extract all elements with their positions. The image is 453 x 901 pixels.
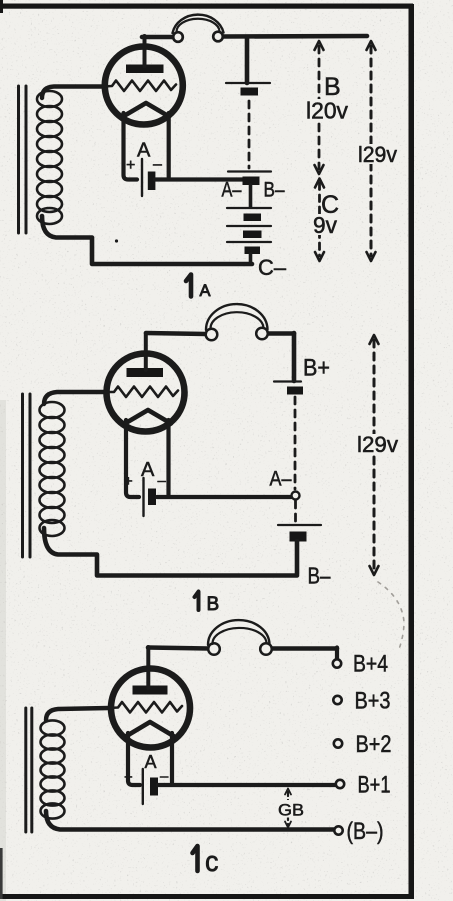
transformer core T3 line 2 (30, 708, 33, 832)
svg-text:l20v: l20v (306, 98, 348, 124)
wire battery A2 to A- terminal (157, 495, 291, 499)
transformer core T2 line 1 (21, 394, 24, 557)
svg-text:B+2: B+2 (356, 731, 392, 758)
phones bridge inner arc (1C) (212, 628, 266, 644)
B+4 drop wire (335, 648, 339, 659)
phones bridge inner arc (176, 19, 219, 32)
jack terminal circle right (1C) (260, 643, 272, 655)
filament left lead wire (124, 113, 138, 180)
frame left border bottom stub (0, 848, 3, 899)
transformer core T1 line 2 (25, 86, 28, 233)
transformer core T2 line 2 (29, 394, 32, 557)
svg-text:B: B (207, 594, 220, 615)
B+ battery lead wire (292, 333, 297, 381)
frame top border (0, 4, 413, 9)
arrow 129v bottom head (1A) (367, 252, 376, 261)
jack terminal circle right (213, 32, 223, 42)
svg-text:B+1: B+1 (358, 772, 391, 799)
filament left lead wire (1C) (128, 733, 140, 785)
battery C cell3 negative plate (245, 247, 261, 255)
phones bridge inner arc (1B) (210, 312, 263, 329)
svg-text:l29v: l29v (357, 432, 398, 457)
battery C cell3 positive plate (227, 241, 271, 243)
label 9v (310, 214, 340, 235)
frame right border (409, 4, 415, 899)
filament right lead wire (1B) (166, 420, 170, 495)
triode V1 filament (123, 103, 169, 117)
arrow B bottom head (315, 165, 324, 174)
B+3 terminal circle (333, 696, 341, 704)
svg-text:B–: B– (264, 179, 285, 202)
triode V3 filament (127, 722, 174, 736)
stray ink dot (115, 239, 118, 242)
battery B- negative plate (290, 532, 307, 542)
svg-text:l29v: l29v (358, 142, 397, 167)
battery A2 positive plate (142, 478, 144, 516)
label 120v (303, 99, 350, 121)
svg-text:A: A (137, 140, 151, 162)
arrow B top head (315, 41, 324, 50)
triode V3 envelope (111, 669, 190, 748)
wire battery A3 to B+1 terminal (158, 783, 335, 787)
B- bottom lead wire (295, 541, 300, 574)
svg-text:+: + (124, 473, 133, 490)
battery A3 positive plate (142, 769, 144, 804)
svg-text:B+3: B+3 (355, 688, 391, 715)
triode V3 grid zigzag (109, 702, 182, 713)
arrow 129v dashed shaft (1B) (373, 340, 376, 570)
battery A1 negative plate (short thick) (148, 172, 156, 191)
battery A2 negative plate (148, 489, 156, 506)
arrow 129v top head (1B) (370, 335, 379, 344)
B+4 terminal circle (333, 659, 341, 667)
secondary coil L1 top lead wire (42, 87, 103, 99)
phones bridge outer arc (1C) (208, 620, 270, 645)
dashed wire B+ to A- (294, 397, 297, 489)
coil L1 bottom lead wire to bottom rail (42, 216, 252, 264)
svg-text:C–: C– (258, 255, 287, 280)
battery B- positive plate (278, 524, 321, 526)
svg-text:B+4: B+4 (353, 651, 388, 678)
GB dashed arrow shaft (287, 792, 289, 825)
label 1c (193, 846, 198, 871)
svg-text:A: A (200, 282, 211, 300)
arrow B voltage dashed shaft (318, 46, 321, 169)
phones bridge outer arc (1B) (206, 304, 268, 330)
triode V3 plate (133, 686, 168, 695)
secondary coil L2 top lead wire (44, 392, 106, 404)
arrow C voltage dashed shaft (318, 183, 321, 256)
label 129v (1B) (354, 434, 400, 454)
GB arrow top head (285, 789, 291, 795)
secondary coil L2 loops (40, 402, 65, 536)
triode V1 envelope (105, 47, 183, 125)
triode V2 filament (125, 410, 171, 424)
filament right lead wire (1C) (170, 733, 174, 783)
svg-text:+: + (126, 157, 135, 174)
battery junction positive plate (228, 170, 271, 172)
triode V2 plate (127, 368, 164, 377)
triode V2 grid zigzag (106, 387, 178, 398)
svg-text:B+: B+ (303, 355, 330, 382)
battery C cell2 negative plate (243, 231, 262, 239)
coil L2 bottom lead wire to bottom rail (44, 528, 297, 576)
transformer core T3 line 1 (24, 708, 27, 832)
label 1B (195, 592, 199, 611)
B+1 terminal circle (336, 780, 344, 788)
battery C cell1 positive plate (227, 207, 271, 209)
jack terminal circle right (1B) (256, 328, 268, 340)
battery B+ positive plate (274, 380, 301, 382)
arrow 129v dashed shaft (1A) (370, 46, 373, 256)
frame bottom border (2, 894, 414, 899)
jack terminal circle left (1C) (208, 643, 220, 655)
battery B+ negative plate (287, 387, 303, 395)
top rail wire (142, 36, 367, 37)
triode V1 plate lead (143, 36, 147, 66)
svg-text:–: – (160, 768, 169, 785)
GB arrow bottom head (285, 822, 291, 828)
svg-text:A–: A– (270, 468, 292, 491)
arrow C top head (315, 179, 324, 188)
top rail wire (1B) (146, 333, 294, 334)
top rail wire (1C) (148, 648, 337, 649)
svg-text:–: – (153, 156, 162, 173)
coil L3 bottom lead wire to B- terminal (46, 811, 334, 830)
svg-text:(B–): (B–) (347, 818, 384, 845)
battery A3 negative plate (150, 778, 158, 796)
svg-text:c: c (205, 846, 219, 878)
label 129v (1A) (356, 144, 399, 164)
battery B cell1 negative plate (241, 88, 259, 96)
dashed wire A- to B- (294, 501, 297, 521)
filament left lead wire (1B) (126, 420, 139, 497)
secondary coil L1 loops (37, 91, 62, 224)
arrow C bottom head (315, 252, 324, 261)
svg-text:+: + (124, 769, 133, 786)
triode V2 envelope (107, 354, 185, 432)
B battery top lead wire (245, 37, 250, 83)
battery A1 positive plate (long thin) (141, 159, 143, 196)
secondary coil L3 loops (41, 720, 65, 818)
link wire junction to C cells (249, 185, 253, 207)
phones bridge outer arc (173, 15, 224, 33)
arrow 129v bottom head (1B) (370, 566, 379, 575)
triode V3 plate lead (146, 647, 150, 688)
left margin scan shading (0, 400, 6, 901)
label 1A (186, 275, 191, 297)
B- terminal circle (1C) (334, 826, 342, 834)
secondary coil L3 top lead wire (46, 708, 109, 720)
B+2 terminal circle (334, 739, 342, 747)
svg-text:A: A (141, 459, 155, 481)
svg-text:–: – (158, 473, 167, 490)
svg-text:9v: 9v (313, 212, 337, 238)
label GB (276, 800, 305, 818)
triode V2 plate lead (144, 333, 148, 370)
triode V1 plate (126, 65, 164, 74)
jack terminal circle left (173, 32, 183, 42)
battery B cell1 positive plate (226, 82, 270, 84)
transformer core T1 line 1 (17, 86, 20, 233)
svg-text:A: A (145, 752, 157, 772)
triode V1 grid zigzag (103, 81, 176, 92)
filament right lead wire (167, 113, 171, 177)
dashed wire B cell1 to junction (248, 101, 251, 168)
C battery bottom lead (249, 254, 253, 263)
arrow 129v top head (1A) (367, 41, 376, 50)
scan scratch artifact (378, 582, 404, 652)
battery junction negative plate (A-/B- tap) (243, 177, 260, 186)
A- open terminal circle (292, 492, 300, 500)
frame left border top stub (0, 0, 3, 13)
svg-text:GB: GB (278, 801, 304, 820)
battery C cell1 negative plate (244, 214, 262, 222)
svg-text:B–: B– (308, 563, 331, 589)
battery C cell2 positive plate (227, 225, 271, 227)
jack terminal circle left (1B) (206, 329, 218, 341)
svg-text:A–: A– (222, 179, 242, 202)
wire battery A1 to B-battery junction (155, 177, 245, 181)
